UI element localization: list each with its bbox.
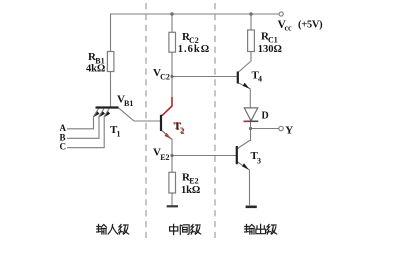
svg-text:E2: E2 [160, 153, 169, 162]
svg-text:Y: Y [285, 125, 293, 137]
svg-text:2: 2 [180, 126, 184, 135]
svg-text:1kΩ: 1kΩ [181, 185, 200, 196]
svg-text:C2: C2 [160, 73, 170, 82]
svg-text:cc: cc [285, 24, 293, 33]
svg-text:C1: C1 [268, 35, 278, 44]
svg-text:B1: B1 [124, 99, 133, 108]
svg-text:1: 1 [117, 129, 121, 138]
svg-text:(+5V): (+5V) [298, 20, 323, 31]
svg-text:D: D [262, 110, 269, 121]
svg-text:3: 3 [257, 156, 261, 165]
svg-text:1.6kΩ: 1.6kΩ [178, 44, 210, 55]
svg-text:130Ω: 130Ω [258, 44, 282, 55]
svg-text:4: 4 [258, 74, 262, 83]
svg-text:4kΩ: 4kΩ [86, 64, 105, 75]
svg-text:C: C [60, 142, 67, 152]
